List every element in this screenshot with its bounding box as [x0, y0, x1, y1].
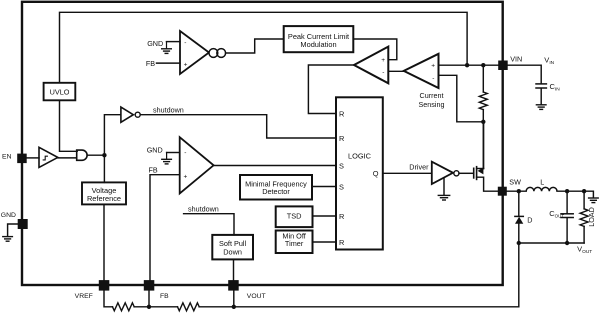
svg-text:+: + — [184, 61, 188, 68]
svg-text:shutdown: shutdown — [188, 205, 219, 214]
svg-text:S: S — [339, 183, 344, 192]
svg-text:Sensing: Sensing — [419, 100, 445, 109]
svg-text:GND: GND — [147, 39, 163, 48]
svg-text:GND: GND — [1, 212, 16, 219]
svg-text:-: - — [432, 75, 434, 82]
svg-text:-: - — [184, 150, 186, 157]
svg-text:GND: GND — [147, 145, 163, 154]
svg-text:-: - — [382, 69, 384, 76]
svg-text:R: R — [339, 110, 344, 119]
svg-text:FB: FB — [146, 59, 155, 68]
svg-text:Q: Q — [373, 169, 379, 178]
svg-text:LOAD: LOAD — [587, 207, 596, 227]
svg-text:L: L — [540, 178, 544, 187]
svg-text:SW: SW — [509, 178, 521, 187]
svg-text:+: + — [381, 57, 385, 64]
svg-text:FB: FB — [160, 293, 169, 300]
svg-text:R: R — [339, 212, 344, 221]
svg-text:VOUT: VOUT — [247, 293, 266, 300]
svg-text:R: R — [339, 238, 344, 247]
svg-text:R: R — [339, 134, 344, 143]
svg-text:Modulation: Modulation — [300, 40, 336, 49]
svg-text:Driver: Driver — [409, 163, 429, 172]
svg-text:VREF: VREF — [75, 293, 93, 300]
svg-text:-: - — [184, 40, 186, 47]
svg-text:+: + — [184, 174, 188, 181]
svg-text:FB: FB — [149, 165, 158, 174]
svg-text:+: + — [431, 63, 435, 70]
svg-text:Timer: Timer — [285, 239, 304, 248]
svg-text:Detector: Detector — [262, 187, 290, 196]
svg-text:VIN: VIN — [510, 55, 522, 64]
svg-text:S: S — [339, 162, 344, 171]
svg-text:LOGIC: LOGIC — [348, 152, 372, 161]
svg-text:TSD: TSD — [287, 211, 302, 220]
svg-text:Reference: Reference — [87, 194, 121, 203]
svg-text:EN: EN — [2, 154, 12, 161]
svg-text:Down: Down — [223, 247, 242, 256]
svg-text:shutdown: shutdown — [153, 105, 184, 114]
svg-text:D: D — [527, 216, 532, 225]
svg-text:UVLO: UVLO — [50, 88, 70, 97]
svg-text:Current: Current — [420, 91, 444, 100]
